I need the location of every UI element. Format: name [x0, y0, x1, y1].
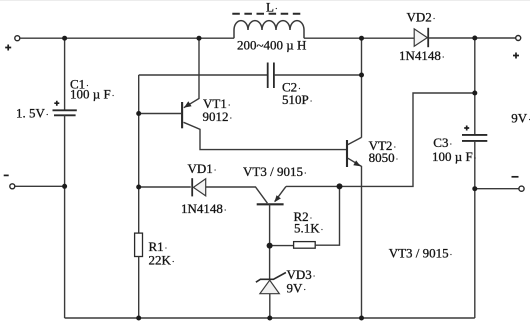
terminal - sign (left): [4, 174, 9, 176]
diode VD2 cathode bar: [427, 28, 429, 47]
svg-text:1. 5V·: 1. 5V·: [16, 106, 49, 121]
terminal - sign (right): [512, 176, 519, 178]
junction node VD1 / R1: [136, 185, 141, 190]
svg-text:200~400 µ H: 200~400 µ H: [237, 37, 306, 52]
junction node top rail at C1: [62, 36, 67, 41]
junction node bottom rail at VT2 emitter: [359, 316, 364, 321]
terminal + sign (left): [5, 45, 11, 51]
svg-text:L·: L·: [266, 0, 278, 15]
diode VD1 cathode bar: [191, 178, 193, 196]
wire VT3 base column down to zener: [269, 204, 271, 278]
inductor L coil: [234, 21, 304, 39]
junction node VT1 base / feedback column: [136, 111, 141, 116]
transistor VT3 base bar: [257, 203, 284, 205]
transistor VT1 emitter arrow: [184, 101, 192, 107]
svg-text:100 µ F·: 100 µ F·: [70, 86, 114, 101]
junction node bottom rail at VD3: [267, 316, 272, 321]
wire VT1 collector to VT2 base: [184, 122, 348, 149]
transistor VT3 emitter arrow: [274, 195, 281, 202]
wire VT2 collector diagonal: [348, 137, 362, 144]
wire - output lead: [475, 188, 519, 190]
junction node VT3 base / R2: [267, 243, 273, 249]
wire output column upper (VD2 node down to C3): [474, 38, 476, 134]
terminal - output (right): [519, 186, 524, 191]
svg-text:510P·: 510P·: [282, 92, 312, 107]
wire C2 right segment: [274, 74, 362, 76]
svg-text:5.1K·: 5.1K·: [294, 221, 323, 236]
svg-text:VD2·: VD2·: [407, 10, 436, 25]
wire feedback column x139: [138, 75, 140, 233]
svg-text:9012·: 9012·: [203, 109, 233, 124]
svg-text:VT3 / 9015·: VT3 / 9015·: [243, 164, 307, 179]
wire VD1 to VT3 collector: [206, 187, 268, 203]
svg-text:1N4148·: 1N4148·: [181, 201, 227, 216]
polarity + mark at C1: [54, 101, 59, 106]
wire VT2 emitter diagonal and column to bottom rail: [348, 158, 362, 318]
wire left column battery/C1 upper: [64, 38, 66, 110]
junction node output column C3 top: [472, 91, 477, 96]
diode VD2 triangle: [414, 29, 427, 46]
junction node top rail at VT1 emitter: [197, 36, 202, 41]
capacitor C1 / 1.5V cell plates: [53, 109, 77, 111]
transistor VT2 emitter arrow: [353, 160, 360, 166]
wire R2 right lead up to emitter net: [315, 186, 339, 245]
wire VT3 emitter diagonal: [275, 186, 286, 201]
wire output column lower (C3 to bottom rail): [474, 141, 476, 318]
svg-text:100 µ F·: 100 µ F·: [432, 149, 476, 164]
svg-text:8050·: 8050·: [369, 150, 399, 165]
svg-text:VD1·: VD1·: [188, 161, 217, 176]
zener VD3 triangle: [260, 280, 279, 294]
wire R2 left lead: [270, 245, 294, 247]
polarity + mark at C3: [464, 126, 469, 131]
junction node top rail at VD2 output: [472, 36, 477, 41]
svg-text:22K·: 22K·: [149, 253, 175, 268]
wire VT1 base lead: [139, 113, 181, 115]
capacitor C2 plates: [267, 63, 269, 89]
resistor R1 body: [135, 233, 143, 256]
wire top rail middle segment: [304, 37, 414, 39]
junction node emitter net / R2 branch: [337, 183, 343, 189]
terminal + sign (right): [513, 53, 519, 59]
wire VT2 collector column to top rail: [361, 38, 363, 137]
svg-text:9V·: 9V·: [511, 111, 530, 126]
resistor R2 body: [294, 242, 316, 249]
terminal + input (top-left): [15, 36, 20, 41]
wire - input terminal to left column: [15, 185, 65, 187]
wire C2 left segment: [139, 74, 268, 76]
svg-text:C3·: C3·: [433, 135, 452, 150]
terminal - input (left): [10, 184, 15, 189]
wire top rail right segment to + output: [428, 37, 516, 39]
wire VT3 emitter net to output column: [286, 93, 475, 186]
wire R1 to bottom rail: [138, 257, 140, 319]
terminal + output (top-right): [516, 36, 521, 41]
junction node top rail at VT2 collector: [359, 36, 364, 41]
junction node C2 right / VT2 collector: [359, 73, 364, 78]
svg-text:9V·: 9V·: [287, 281, 307, 296]
svg-text:1N4148·: 1N4148·: [399, 48, 445, 63]
junction node bottom rail at R1: [136, 316, 141, 321]
wire top rail left segment: [20, 37, 234, 39]
junction node left column - terminal: [62, 184, 67, 189]
transistor VT1 base bar: [181, 102, 183, 128]
wire node139 to VD1: [139, 186, 191, 188]
junction node output column - lead: [472, 186, 477, 191]
transistor VT2 base bar: [346, 140, 348, 167]
diode VD1 triangle: [193, 179, 205, 196]
capacitor C3 plates: [462, 134, 487, 136]
wire bottom rail: [65, 317, 475, 319]
wire VT1 emitter lead from top rail: [184, 38, 199, 108]
inductor core dashed line: [232, 13, 303, 15]
wire VD3 anode to bottom rail: [269, 294, 271, 318]
wire left column battery/C1 lower: [64, 115, 66, 318]
svg-text:VT3 / 9015·: VT3 / 9015·: [389, 245, 453, 260]
zener VD3 cathode bar with ticks: [256, 273, 286, 283]
